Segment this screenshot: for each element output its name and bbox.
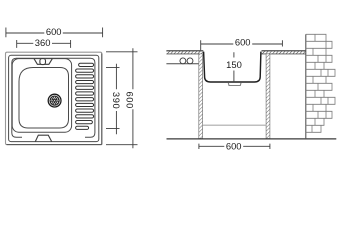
dim 390 right: extension lines (106, 67, 120, 128)
bowl bottom outline (19, 68, 69, 129)
dim 390 right: line (115, 64, 117, 135)
dim 600 right: extension lines (106, 52, 138, 145)
dim 600 right: line (132, 48, 134, 148)
svg-text:600: 600 (46, 26, 62, 37)
tap hole circles (side deck) (180, 58, 186, 64)
svg-text:390: 390 (111, 92, 122, 109)
svg-text:150: 150 (226, 59, 242, 70)
cabinet right wall (hatched) (266, 54, 270, 139)
dim 600 section top: ticks (201, 40, 283, 50)
sink outer rim (600x600 plan) (6, 52, 102, 144)
floor line (167, 138, 337, 140)
drain strainer (48, 94, 61, 107)
bowl section profile (204, 52, 261, 82)
dim 600 section top: line (201, 43, 283, 45)
countertop slab left (hatched) (166, 51, 203, 53)
cabinet shelf line (203, 124, 267, 126)
svg-text:360: 360 (35, 37, 51, 48)
svg-text:600: 600 (235, 36, 251, 47)
dim 360: extension ticks (17, 40, 71, 48)
dim 360: line (17, 42, 71, 44)
brick wall line (305, 34, 307, 139)
dim 600 top: line (6, 32, 103, 34)
dim 600 section bottom: ticks (199, 144, 270, 149)
drainboard ribs (79, 63, 94, 66)
pressed working-area outline (12, 58, 95, 137)
deck apron bottom line (166, 63, 198, 65)
overflow trapezoid at bowl bottom (35, 135, 51, 141)
dim 600 top: extension ticks (6, 28, 103, 38)
brick courses (306, 34, 335, 132)
svg-text:600: 600 (124, 91, 135, 108)
cabinet left wall (hatched) (199, 54, 203, 139)
dim 600 section bottom: line (199, 145, 270, 147)
svg-text:600: 600 (226, 141, 242, 152)
dim 150: line segments (233, 52, 235, 81)
bowl opening outline (12, 59, 71, 133)
sink inner rim line (9, 55, 99, 141)
drain boss under bowl (228, 83, 241, 86)
outer rim shadow edges (7, 54, 102, 145)
faucet hole circle (40, 59, 46, 65)
faucet hole trapezoid (34, 59, 52, 65)
countertop slab right (hatched) (262, 51, 306, 53)
